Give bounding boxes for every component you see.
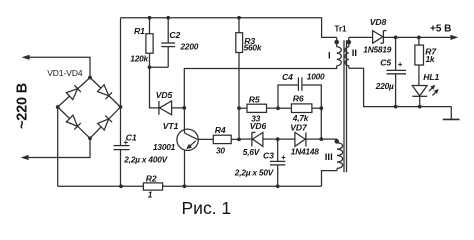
svg-text:2,2µ x 50V: 2,2µ x 50V <box>234 168 275 178</box>
svg-text:R4: R4 <box>215 125 226 135</box>
wire: collector circle right to R4 <box>197 138 213 140</box>
svg-text:560k: 560k <box>244 43 262 53</box>
junction dots output top <box>394 36 421 40</box>
diode VD8 schottky (anode left) <box>373 31 387 44</box>
bridge diode bottom-right arm (cathode to right vertex) <box>98 116 112 130</box>
junction dots on bottom rail <box>119 184 280 188</box>
svg-text:C5: C5 <box>380 57 391 67</box>
node: VD7 cathode / winding III top <box>319 137 323 141</box>
svg-text:VD1-VD4: VD1-VD4 <box>47 68 83 78</box>
wire: winding III return to bottom rail <box>322 171 338 187</box>
svg-text:2,2µ x 400V: 2,2µ x 400V <box>123 155 168 165</box>
wire: to winding III top <box>321 138 337 140</box>
node: VD6/VD7/C3 junction <box>276 137 280 141</box>
resistor R7 <box>415 37 424 85</box>
node: collector junction dot <box>182 106 186 110</box>
svg-text:1N4148: 1N4148 <box>291 147 319 157</box>
transformer winding I with phase dot <box>334 37 341 65</box>
LED HL1 <box>412 86 427 107</box>
svg-text:+5 В: +5 В <box>430 24 451 35</box>
diode VD7 (anode left) <box>278 132 322 146</box>
wire: R3/R5 junction down to R4/VD6 junction <box>238 108 240 139</box>
svg-text:+: + <box>281 153 286 162</box>
resistor R5 <box>239 104 278 112</box>
wire: winding II top to VD8 <box>349 36 373 38</box>
svg-text:C3: C3 <box>263 151 274 161</box>
svg-text:VD8: VD8 <box>370 17 387 27</box>
wire: VD8 cathode to +5V arrow <box>383 35 458 40</box>
wire: winding II bottom to output bottom rail <box>349 68 452 106</box>
wire: bridge left vertex (DC minus) down to bottom rail <box>57 107 59 186</box>
svg-text:VD5: VD5 <box>156 90 173 100</box>
junction dots at bridge vertices <box>56 76 123 141</box>
wire: VD6 row from base junction <box>239 138 252 140</box>
svg-text:2200: 2200 <box>180 41 199 51</box>
LED HL1 emission arrows <box>429 85 439 96</box>
svg-text:4,7k: 4,7k <box>292 113 309 123</box>
svg-text:1k: 1k <box>426 54 435 64</box>
svg-text:R1: R1 <box>134 26 145 36</box>
capacitor C3 <box>270 139 285 186</box>
svg-text:VD7: VD7 <box>290 122 308 132</box>
wire: collector node up and over to winding I bottom <box>184 66 336 108</box>
svg-text:120k: 120k <box>130 54 148 64</box>
svg-text:C2: C2 <box>169 30 180 40</box>
svg-text:R5: R5 <box>249 95 260 105</box>
svg-text:VT1: VT1 <box>163 121 179 131</box>
svg-text:II: II <box>352 48 357 59</box>
svg-text:13001: 13001 <box>153 142 176 152</box>
junction dots R5/R6 row <box>276 106 323 110</box>
wire: top AC input with left arrow to bridge top vertex <box>22 55 90 78</box>
resistor R4 <box>213 135 239 143</box>
svg-text:C4: C4 <box>282 72 293 82</box>
svg-text:+: + <box>398 60 403 69</box>
capacitor C2 <box>150 18 176 68</box>
capacitor C1 <box>114 107 130 186</box>
wire: snubber down to diode VD5 <box>150 67 159 108</box>
wire: bridge right vertex (DC plus) up to top rail <box>120 18 122 107</box>
svg-text:Рис. 1: Рис. 1 <box>182 198 232 218</box>
svg-text:R2: R2 <box>146 174 157 184</box>
capacitor C5 <box>387 37 407 106</box>
svg-text:1000: 1000 <box>307 71 325 81</box>
zener diode VD6 (cathode left, zener hook) <box>252 132 278 146</box>
capacitor C4 (across R6) <box>278 77 321 108</box>
wire: C4/R6 right junction down to VD7 cathode <box>320 108 322 139</box>
bridge diode bottom-left arm (cathode to bottom vertex) <box>66 115 80 129</box>
junction dots base network <box>237 106 241 141</box>
wire: bottom AC input with left arrow to bridge bottom vertex <box>21 138 90 160</box>
wire: bottom DC- rail <box>58 185 322 187</box>
resistor R3 <box>236 18 243 108</box>
bridge diode top-right arm (cathode to right vertex) <box>98 85 112 99</box>
svg-text:5,6V: 5,6V <box>243 147 261 157</box>
svg-text:220µ: 220µ <box>375 81 394 91</box>
svg-text:III: III <box>325 152 333 163</box>
bridge diode top-left arm (cathode to top vertex) <box>66 85 80 99</box>
svg-text:R6: R6 <box>293 93 304 103</box>
svg-text:Tr1: Tr1 <box>335 25 348 34</box>
svg-text:+: + <box>124 138 129 147</box>
resistor R1 <box>146 18 153 68</box>
svg-text:30: 30 <box>216 145 225 155</box>
svg-text:1: 1 <box>148 189 153 199</box>
resistor R2 (in bottom rail) <box>143 183 162 190</box>
transformer winding III with phase dot <box>335 139 343 171</box>
wire: top DC+ rail over to transformer winding I <box>121 18 337 38</box>
svg-text:VD6: VD6 <box>250 121 267 131</box>
junction dots output bottom <box>394 105 422 109</box>
resistor R6 <box>278 104 321 113</box>
svg-text:1N5819: 1N5819 <box>363 44 391 54</box>
svg-text:I: I <box>328 51 331 62</box>
svg-text:HL1: HL1 <box>423 72 439 82</box>
transformer core (double line) <box>344 40 347 172</box>
diode VD5 (cathode left) <box>159 101 184 115</box>
ground symbol <box>443 107 460 120</box>
transistor VT1 <box>177 108 198 186</box>
bridge rectifier VD1-VD4 diamond arms <box>58 78 121 139</box>
transformer winding II with phase dot <box>345 37 351 68</box>
junction dots top rail <box>148 16 241 69</box>
svg-text:~220 В: ~220 В <box>15 83 31 129</box>
